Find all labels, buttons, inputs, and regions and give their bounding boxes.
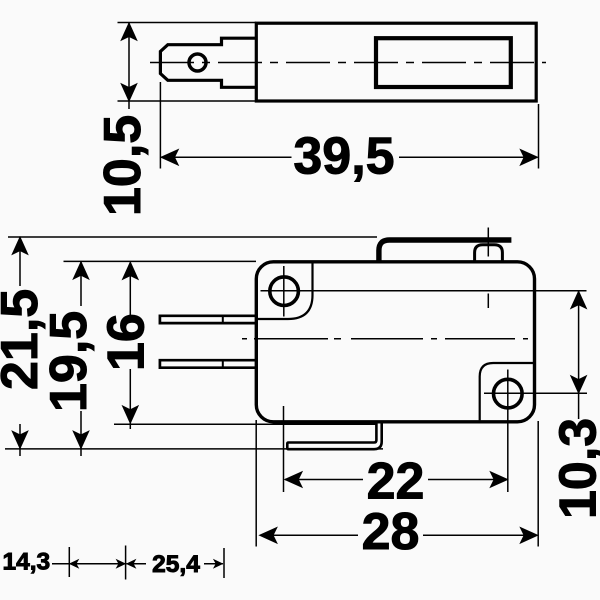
terminal lug hole (top view) [189, 54, 206, 71]
extension line left (39,5) [159, 82, 161, 169]
svg-text:22: 22 [367, 453, 425, 511]
terminal blade 2 (lower left) [160, 360, 257, 368]
svg-text:14,3: 14,3 [3, 548, 51, 575]
left extension line for 28 [255, 420, 257, 547]
svg-text:10,3: 10,3 [550, 418, 600, 519]
dimension line 19,5 [72, 261, 90, 456]
svg-text:25,4: 25,4 [152, 551, 200, 578]
extension line top (10,5) [118, 22, 257, 24]
lever arm [379, 240, 512, 262]
plunger centerline [487, 228, 489, 309]
extension line bottom (10,5) [118, 100, 257, 102]
dimension line 16 [122, 261, 140, 429]
dimension line 39,5 [160, 149, 539, 167]
top view window cutout [376, 38, 511, 87]
terminal blade 1 (upper left) [160, 316, 257, 323]
svg-text:19,5: 19,5 [40, 311, 98, 412]
boss around hole2 [480, 363, 533, 420]
hole1 horizontal center tick / 10,3 top extension [261, 290, 587, 292]
blade 2 notch [222, 360, 224, 368]
terminal blade 3 (bottom, J-shaped) [287, 422, 381, 449]
left extension line for 22 (from hole1) [283, 406, 285, 492]
centerline of top view [150, 62, 546, 64]
extension line at body top (19,5 / 16) [64, 260, 257, 262]
switch body (side view) [256, 262, 534, 422]
extension line at body bottom (16) [114, 423, 376, 425]
dimension line 22 [284, 471, 509, 489]
svg-text:16: 16 [98, 313, 156, 371]
terminal lug profile (top view) [160, 38, 256, 87]
hole2 horizontal center tick / 10,3 bottom extension [484, 392, 587, 394]
svg-text:28: 28 [362, 503, 420, 561]
extension lines for 14,3 [68, 547, 70, 577]
extension line right (39,5) [538, 104, 540, 169]
mounting hole bottom-right [494, 379, 523, 408]
dimension line 10,3 [570, 290, 588, 419]
hole2 vertical center tick / 22 right extension [507, 370, 509, 493]
plunger button [475, 245, 503, 262]
dimension line 21,5 [11, 236, 29, 456]
top view body outline [256, 23, 536, 101]
svg-text:10,5: 10,5 [94, 115, 152, 216]
mounting hole top-left [270, 277, 299, 306]
shared bottom extension line (21,5 and 19,5) [5, 448, 383, 450]
boss around hole1 [258, 263, 313, 319]
right extension line for 25,4 [223, 548, 225, 578]
dimension line 28 [258, 527, 538, 545]
right extension line for 28 [537, 421, 539, 547]
body centerline (side view) [242, 338, 533, 340]
dimension line 10,5 [120, 22, 138, 109]
hole1 vertical center tick [283, 266, 285, 317]
extension line at lever top (21,5) [8, 236, 377, 238]
dimension line 25,4 [126, 559, 223, 569]
blade 1 notch [222, 316, 224, 323]
svg-text:39,5: 39,5 [293, 128, 394, 186]
dimension line 14,3 [52, 559, 126, 569]
